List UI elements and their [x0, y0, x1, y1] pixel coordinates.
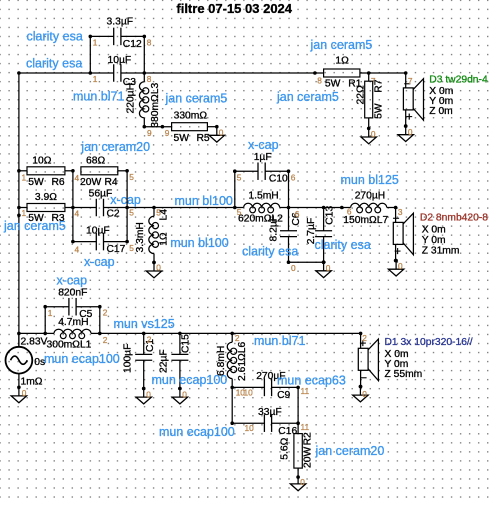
svg-text:C2: C2	[107, 208, 120, 219]
pin 4 C17	[75, 244, 80, 254]
capacitor C13	[306, 206, 335, 264]
svg-text:2: 2	[362, 333, 367, 343]
label mun ecap100 C15	[152, 373, 228, 387]
svg-text:3.9Ω: 3.9Ω	[35, 192, 57, 203]
svg-text:D3 tw29dn-4: D3 tw29dn-4	[429, 75, 488, 86]
svg-text:0: 0	[408, 127, 413, 137]
speaker D3	[403, 73, 423, 128]
resistor R4	[80, 155, 127, 188]
svg-text:6: 6	[347, 207, 352, 217]
capacitor C17	[73, 226, 127, 255]
pin 4 C2	[75, 208, 80, 218]
label x-cap C5	[57, 273, 88, 287]
label mun ecap100 C16	[159, 425, 235, 439]
pin 6 C10	[291, 173, 296, 183]
svg-text:jan ceram5: jan ceram5	[310, 38, 373, 52]
svg-text:mun vs125: mun vs125	[114, 317, 175, 331]
svg-text:clarity esa: clarity esa	[27, 29, 83, 43]
wire node11 vertical	[297, 387, 299, 423]
svg-text:0: 0	[182, 390, 187, 400]
svg-text:jan ceram5: jan ceram5	[3, 219, 66, 233]
ground D1	[353, 385, 368, 402]
svg-text:6.8mH: 6.8mH	[216, 346, 227, 376]
svg-text:5: 5	[237, 207, 242, 217]
ground R2	[290, 475, 305, 490]
svg-text:jan ceram5: jan ceram5	[276, 90, 339, 104]
svg-text:jan ceram20: jan ceram20	[80, 140, 150, 154]
wire node5 vertical	[125, 169, 129, 243]
svg-text:mun bl100: mun bl100	[175, 194, 233, 208]
speaker D2	[393, 206, 413, 263]
label D2 driver	[420, 213, 488, 257]
svg-text:mun bl71: mun bl71	[73, 90, 124, 104]
capacitor C12	[90, 16, 144, 50]
label mun bl100 L4	[170, 236, 228, 250]
label mun bl71 L6	[254, 334, 305, 348]
svg-text:3.3µF: 3.3µF	[107, 16, 134, 27]
label jan ceram5 R7	[276, 90, 339, 104]
svg-text:mun bl100: mun bl100	[170, 236, 228, 250]
svg-text:0: 0	[326, 263, 331, 273]
pin 1 C5	[48, 308, 53, 318]
svg-text:C10: C10	[269, 173, 288, 184]
svg-text:4: 4	[75, 173, 80, 183]
pin 2 C1	[147, 335, 152, 345]
label jan ceram5 R5	[165, 91, 228, 105]
svg-text:4.7mH: 4.7mH	[58, 317, 88, 328]
svg-text:9: 9	[147, 128, 152, 138]
svg-text:C15: C15	[181, 334, 192, 353]
svg-text:820nF: 820nF	[58, 287, 87, 298]
capacitor C3	[108, 55, 137, 88]
svg-text:x-cap: x-cap	[57, 273, 88, 287]
pin 8 C3	[147, 74, 152, 84]
pin 5 L4	[156, 208, 161, 218]
inductor L4	[135, 208, 170, 265]
pin 0 D3	[408, 127, 413, 137]
svg-text:jan ceram20: jan ceram20	[315, 444, 385, 458]
inductor L2	[235, 191, 289, 225]
resistor R5	[172, 110, 210, 144]
svg-text:R5: R5	[197, 133, 210, 144]
pin 8 C12	[147, 38, 152, 48]
ground L4	[146, 261, 161, 278]
capacitor C1	[122, 333, 156, 390]
pin 0 D2	[398, 261, 403, 271]
svg-text:–: –	[393, 212, 399, 224]
pin 5 R4	[129, 172, 134, 182]
wire C5 left	[43, 305, 47, 333]
label D1 driver	[385, 337, 473, 380]
label jan ceram5 R1	[310, 38, 373, 52]
svg-text:–: –	[361, 372, 367, 384]
svg-text:5W: 5W	[28, 177, 44, 188]
svg-text:R7: R7	[374, 79, 385, 92]
wire source to ground	[18, 374, 20, 388]
wire C12 right	[143, 35, 147, 73]
pin 0 D1	[362, 389, 367, 399]
wire node10 vertical	[230, 387, 234, 425]
wire C10 left	[233, 169, 237, 207]
svg-text:100µF: 100µF	[122, 344, 133, 373]
svg-text:2: 2	[103, 308, 108, 318]
ground C13	[316, 260, 331, 277]
svg-text:x-cap: x-cap	[84, 255, 115, 269]
wire node4 vertical	[71, 169, 75, 243]
label clarity esa C12	[27, 29, 83, 43]
pin 6 L7	[347, 207, 352, 217]
svg-text:mun bl125: mun bl125	[341, 173, 399, 187]
source S1 value	[21, 336, 48, 347]
pin 0 C15	[182, 390, 187, 400]
svg-text:4: 4	[75, 208, 80, 218]
wire woofer rail	[19, 332, 363, 336]
resistor R2	[279, 423, 313, 477]
wire mid rail 2	[289, 206, 344, 210]
label jan ceram20 R4	[80, 140, 150, 154]
svg-text:+: +	[406, 112, 413, 124]
svg-text:mun ecap63: mun ecap63	[277, 373, 346, 387]
label mun ecap63 C9	[277, 373, 346, 387]
svg-text:5: 5	[156, 208, 161, 218]
capacitor C16	[232, 407, 300, 437]
pin 8 R1	[317, 76, 322, 86]
svg-text:mun ecap100: mun ecap100	[44, 352, 120, 366]
svg-text:5: 5	[237, 173, 242, 183]
label mun bl125 L7	[341, 173, 399, 187]
pin 10 C16	[245, 423, 255, 433]
pin 0 R7	[371, 129, 376, 139]
title	[176, 1, 292, 16]
pin 0 C1	[146, 390, 151, 400]
svg-text:2.61ΩL6: 2.61ΩL6	[237, 342, 248, 381]
svg-text:Z 31mm: Z 31mm	[422, 245, 460, 256]
speaker D1	[358, 333, 378, 388]
svg-text:3.3mH: 3.3mH	[135, 222, 146, 252]
svg-text:x-cap: x-cap	[110, 193, 141, 207]
svg-text:R6: R6	[52, 177, 65, 188]
svg-text:1: 1	[93, 38, 98, 48]
capacitor C6	[268, 208, 302, 265]
resistor R6	[19, 155, 73, 188]
pin 4 R6R4	[75, 173, 80, 183]
pin 2 L6	[235, 333, 240, 343]
wire L6 to C9	[0, 0, 1, 1]
svg-text:10Ω: 10Ω	[32, 155, 51, 166]
resistor R3	[19, 192, 73, 224]
svg-text:Z 55mm: Z 55mm	[385, 369, 423, 380]
svg-text:10: 10	[244, 387, 254, 397]
pin 11 C9	[301, 386, 310, 396]
ground C1	[136, 387, 151, 404]
svg-text:C17: C17	[107, 244, 126, 255]
svg-text:0: 0	[371, 129, 376, 139]
ground D3	[398, 124, 413, 141]
pin 1 C3	[93, 74, 98, 84]
pin 7 D3	[408, 76, 413, 86]
label clarity esa C3	[26, 57, 82, 71]
wire C12 left	[89, 35, 93, 73]
svg-text:5W: 5W	[374, 103, 385, 119]
pin 3 L7	[398, 207, 403, 217]
wire mid rail	[127, 206, 237, 210]
pin 5 C10	[237, 173, 242, 183]
svg-text:1: 1	[48, 308, 53, 318]
svg-text:0: 0	[146, 390, 151, 400]
svg-text:0: 0	[362, 389, 367, 399]
wire C10 right	[287, 169, 291, 209]
svg-text:10µF: 10µF	[86, 226, 110, 237]
svg-text:R4: R4	[105, 177, 118, 188]
svg-text:D2 8nmb420-8: D2 8nmb420-8	[420, 213, 488, 224]
pin 0 R2	[300, 477, 305, 487]
label mun vs125	[114, 317, 175, 331]
inductor L3	[125, 73, 161, 129]
svg-text:mun ecap100: mun ecap100	[159, 425, 235, 439]
capacitor C2	[73, 188, 127, 219]
svg-text:C16: C16	[278, 426, 297, 437]
svg-text:0: 0	[219, 128, 224, 138]
capacitor C10	[235, 152, 289, 184]
svg-text:22Ω: 22Ω	[355, 85, 366, 104]
svg-text:1mΩ: 1mΩ	[21, 377, 43, 388]
pin 5 L2	[237, 207, 242, 217]
svg-text:22µF: 22µF	[158, 349, 169, 373]
svg-text:5W: 5W	[325, 78, 341, 89]
pin 11 C16	[301, 422, 310, 432]
label x-cap C10	[248, 138, 279, 152]
pin 0 C13	[326, 263, 331, 273]
pin 6 C6	[295, 209, 300, 219]
svg-text:68Ω: 68Ω	[86, 155, 105, 166]
svg-text:5: 5	[129, 208, 134, 218]
svg-text:1Ω: 1Ω	[335, 55, 349, 66]
pin 2 D1	[362, 333, 367, 343]
ground C15	[172, 387, 187, 404]
svg-text:mun bl71: mun bl71	[254, 334, 305, 348]
svg-text:1: 1	[22, 208, 27, 218]
svg-text:1Ω: 1Ω	[159, 232, 170, 246]
resistor R7	[355, 73, 384, 128]
svg-text:+: +	[394, 246, 401, 258]
svg-text:1: 1	[22, 172, 27, 182]
inductor L7	[342, 190, 396, 225]
pin 7 R7	[371, 76, 376, 86]
svg-text:2: 2	[103, 335, 108, 345]
ground D2	[388, 259, 403, 276]
svg-text:2: 2	[147, 335, 152, 345]
wire left bus	[17, 71, 21, 347]
pin 1 R6	[22, 172, 27, 182]
pin 9 L3	[147, 128, 152, 138]
label D3 driver	[429, 75, 488, 118]
pin 0 source	[22, 388, 27, 398]
svg-text:4: 4	[75, 244, 80, 254]
label jan ceram20 R2	[315, 444, 385, 458]
label mun bl100 L2	[175, 194, 233, 208]
pin 9 R5	[165, 128, 170, 138]
pin 0 L4	[156, 263, 161, 273]
ground source	[11, 386, 26, 403]
pin 0 R5	[219, 128, 224, 138]
wire L3 to R5	[144, 125, 171, 129]
svg-text:8: 8	[147, 74, 152, 84]
ground R7	[361, 127, 376, 144]
label clarity esa C6	[242, 244, 298, 258]
svg-text:Z 0m: Z 0m	[429, 106, 452, 117]
svg-text:380mΩL3: 380mΩL3	[150, 83, 161, 128]
svg-text:330mΩ: 330mΩ	[174, 110, 208, 121]
svg-text:8: 8	[317, 76, 322, 86]
svg-text:filtre 07-15 03 2024: filtre 07-15 03 2024	[176, 1, 292, 16]
pin 1 R3	[22, 208, 27, 218]
ground R5	[209, 125, 224, 142]
svg-text:C13: C13	[324, 206, 335, 225]
svg-text:clarity esa: clarity esa	[242, 244, 298, 258]
wire C6 C13 bottom	[289, 261, 324, 263]
source S1	[6, 333, 46, 387]
svg-text:D1 3x 10pr320-16//: D1 3x 10pr320-16//	[385, 337, 473, 348]
wire R5 to ground	[207, 126, 216, 128]
svg-text:5.6Ω: 5.6Ω	[279, 437, 290, 459]
svg-text:11: 11	[301, 422, 310, 432]
svg-text:9: 9	[165, 128, 170, 138]
svg-text:0: 0	[291, 263, 296, 273]
svg-text:x-cap: x-cap	[248, 138, 279, 152]
svg-text:R2: R2	[302, 432, 313, 445]
capacitor C15	[158, 333, 191, 390]
pin 2 C5	[103, 308, 108, 318]
svg-text:2: 2	[235, 333, 240, 343]
svg-text:clarity esa: clarity esa	[26, 57, 82, 71]
svg-text:0: 0	[22, 388, 27, 398]
svg-text:2.83V: 2.83V	[21, 336, 48, 347]
inductor L1	[45, 317, 100, 351]
wire tweeter rail	[19, 71, 317, 75]
svg-text:56µF: 56µF	[89, 188, 113, 199]
svg-text:1: 1	[93, 74, 98, 84]
svg-text:5W: 5W	[174, 133, 190, 144]
svg-text:C9: C9	[277, 390, 290, 401]
svg-text:270µH: 270µH	[355, 190, 386, 201]
wire R1 to D3	[367, 71, 408, 75]
svg-text:8: 8	[147, 38, 152, 48]
svg-text:20W: 20W	[302, 447, 313, 468]
svg-text:5: 5	[129, 243, 134, 253]
svg-text:1µF: 1µF	[254, 152, 272, 163]
svg-text:6: 6	[291, 173, 296, 183]
svg-text:20W: 20W	[80, 177, 101, 188]
capacitor C5	[45, 287, 100, 320]
label x-cap C17	[84, 255, 115, 269]
resistor R1	[315, 55, 369, 89]
svg-text:220µH: 220µH	[125, 83, 136, 114]
label mun bl71 L3	[73, 90, 124, 104]
svg-text:7: 7	[408, 76, 413, 86]
svg-text:11: 11	[301, 386, 310, 396]
svg-text:10µF: 10µF	[108, 55, 132, 66]
svg-text:0: 0	[398, 261, 403, 271]
svg-text:1.5mH: 1.5mH	[248, 191, 278, 202]
svg-text:10: 10	[245, 423, 255, 433]
svg-text:C12: C12	[123, 39, 142, 50]
svg-text:300mΩL1: 300mΩL1	[47, 339, 92, 350]
pin 2 L1	[103, 335, 108, 345]
svg-text:6: 6	[295, 209, 300, 219]
label mun ecap100 C1	[44, 352, 120, 366]
wire C5 right	[98, 305, 102, 333]
inductor L6	[216, 333, 248, 389]
pin 5 C17	[129, 243, 134, 253]
svg-text:Y 0m: Y 0m	[422, 235, 446, 246]
label clarity esa C13	[315, 238, 371, 252]
svg-text:8.2µF: 8.2µF	[268, 215, 279, 242]
label x-cap C2	[110, 193, 141, 207]
pin 1 C12	[93, 38, 98, 48]
capacitor C9	[232, 371, 300, 401]
pin 10 C9	[236, 387, 253, 397]
pin 0 C6	[291, 263, 296, 273]
svg-text:0: 0	[300, 477, 305, 487]
svg-text:5: 5	[129, 172, 134, 182]
svg-text:33µF: 33µF	[258, 407, 282, 418]
label jan ceram5 R3	[3, 219, 66, 233]
pin 5 C2	[129, 208, 134, 218]
svg-text:clarity esa: clarity esa	[315, 238, 371, 252]
svg-text:0: 0	[156, 263, 161, 273]
svg-text:jan ceram5: jan ceram5	[165, 91, 228, 105]
